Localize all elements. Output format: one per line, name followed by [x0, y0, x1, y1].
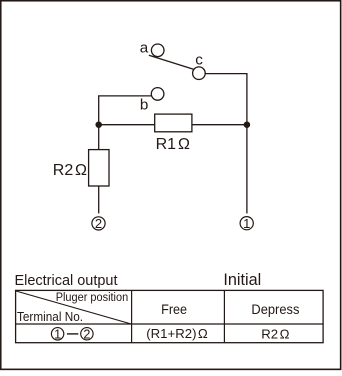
svg-text:2: 2: [95, 216, 102, 231]
junction node right: [244, 121, 251, 128]
wire from b to left corner: [99, 96, 152, 125]
terminal 2: [92, 216, 105, 231]
table diagonal: [16, 291, 131, 324]
svg-text:R2Ω: R2Ω: [261, 326, 289, 341]
svg-text:Pluger position: Pluger position: [56, 290, 129, 304]
svg-text:R2Ω: R2Ω: [53, 162, 87, 179]
contact b: [151, 88, 164, 101]
svg-text:a: a: [140, 39, 149, 56]
junction node left: [95, 121, 102, 128]
wire from c to right corner: [205, 74, 247, 125]
wire R2 to terminal 2: [98, 186, 100, 213]
svg-text:b: b: [140, 96, 148, 113]
wire R1 row: [99, 124, 247, 126]
contact a: [151, 44, 164, 57]
svg-text:Terminal No.: Terminal No.: [17, 309, 83, 324]
svg-text:Electrical output: Electrical output: [15, 272, 119, 289]
table column divider 2: [223, 290, 225, 342]
svg-text:2: 2: [83, 327, 90, 341]
cell terminal 1-2: [51, 327, 93, 341]
resistor R2: [89, 150, 109, 186]
svg-text:Free: Free: [161, 302, 187, 317]
contact c: [193, 67, 206, 80]
table outer frame: [16, 290, 324, 342]
svg-text:R1Ω: R1Ω: [156, 136, 190, 153]
svg-text:(R1+R2)Ω: (R1+R2)Ω: [146, 326, 208, 341]
svg-text:Depress: Depress: [251, 302, 299, 317]
svg-text:1: 1: [54, 327, 61, 341]
switch lever: [149, 55, 194, 69]
terminal 1: [240, 216, 253, 231]
wire right vertical to terminal 1: [246, 125, 248, 214]
table column divider 1: [131, 290, 133, 342]
svg-text:1: 1: [243, 216, 250, 231]
resistor R1: [155, 114, 192, 132]
table row divider: [16, 323, 324, 325]
wire left vertical to R2: [98, 125, 100, 150]
svg-text:Initial: Initial: [223, 271, 261, 289]
svg-text:c: c: [195, 51, 203, 68]
